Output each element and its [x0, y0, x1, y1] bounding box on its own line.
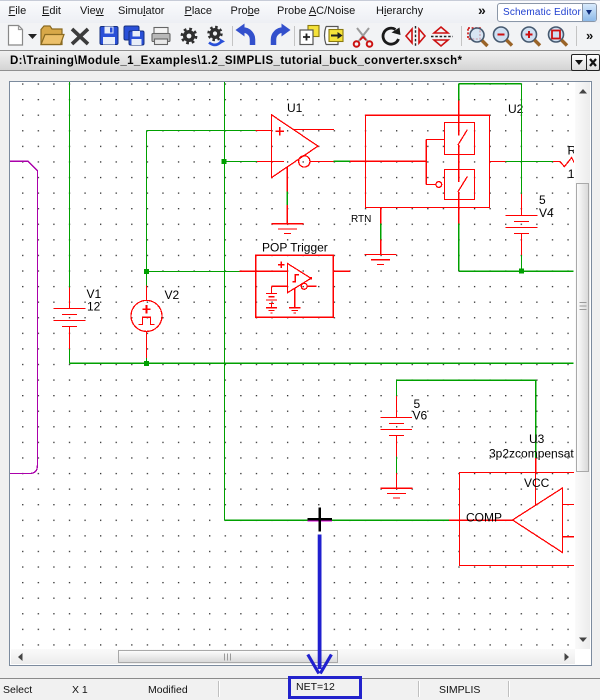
wire feedback vertical — [224, 82, 226, 520]
wire V1 top vertical — [69, 82, 71, 288]
svg-text:POP Trigger: POP Trigger — [262, 241, 328, 255]
cut scissors — [357, 28, 369, 42]
wire U2 control link — [333, 160, 350, 162]
separator — [232, 26, 234, 46]
POP trigger block U5 — [239, 255, 350, 317]
svg-text:V6: V6 — [413, 409, 428, 423]
svg-text:VCC: VCC — [524, 476, 550, 490]
wire U1 ground stub — [286, 192, 288, 205]
resistor R1 clipped — [553, 158, 576, 167]
svg-text:U3: U3 — [529, 432, 545, 446]
wire RTN stub — [380, 224, 382, 240]
copy — [308, 26, 319, 37]
wire bottom rail — [70, 349, 574, 363]
zoom area — [468, 28, 480, 39]
voltage source V6 — [381, 396, 413, 456]
wire U1 plus input feed — [147, 130, 256, 271]
node junction V4 rail — [519, 269, 524, 274]
compensator block U3 — [449, 458, 590, 565]
save floppy — [100, 27, 118, 45]
svg-text:U1: U1 — [287, 101, 303, 115]
cursor crosshair — [308, 518, 333, 520]
node junction V2 bottom — [144, 361, 149, 366]
svg-text:R1: R1 — [568, 144, 575, 158]
rotate — [383, 28, 398, 44]
pulse source V2 — [131, 286, 162, 359]
undo — [243, 30, 253, 45]
voltage source V1 — [54, 288, 86, 350]
ground RTN — [365, 208, 397, 265]
separator — [461, 26, 463, 46]
redo — [274, 30, 284, 45]
wire U1 minus input — [225, 160, 258, 162]
svg-text:COMP: COMP — [466, 511, 502, 525]
print — [154, 28, 168, 34]
highlight arrow — [308, 535, 332, 674]
node junction minus-input tee — [222, 159, 227, 164]
wire POP input feed — [147, 270, 240, 272]
svg-text:1: 1 — [568, 167, 574, 181]
wire U2 top loop — [459, 84, 522, 194]
simulator gears — [209, 27, 221, 39]
wire V6 ground stub — [396, 456, 398, 473]
wire V4 bottom stub — [521, 255, 523, 271]
zoom fit — [549, 27, 564, 42]
separator — [294, 26, 296, 46]
wire V2 branch — [146, 271, 148, 363]
svg-text:V2: V2 — [165, 288, 180, 302]
open folder — [41, 26, 62, 45]
delete X — [72, 29, 88, 44]
wire highlight magenta — [308, 520, 333, 522]
node junction V2 top — [144, 269, 149, 274]
separator — [576, 26, 578, 46]
op-amp U1 — [257, 115, 334, 178]
svg-text:V4: V4 — [539, 206, 554, 220]
new document — [9, 26, 23, 46]
grid dots — [10, 82, 574, 648]
svg-text:5: 5 — [539, 193, 546, 207]
wire U2 output — [505, 160, 553, 162]
ground below U1 — [272, 167, 304, 234]
mirror vertical — [415, 26, 417, 47]
switch block U2 — [350, 100, 505, 223]
save all floppies — [124, 26, 139, 40]
svg-text:3p2zcompensator: 3p2zcompensator — [489, 447, 574, 461]
zoom in — [522, 27, 537, 42]
wire VCC feed — [535, 380, 537, 458]
wire COMP feed — [225, 519, 449, 521]
paste into — [325, 27, 339, 45]
purple annotation box — [8, 161, 37, 473]
wire switch-node to ground rail — [459, 223, 574, 271]
options gear — [182, 29, 196, 43]
wire V6 riser — [397, 380, 536, 396]
svg-text:12: 12 — [87, 300, 101, 314]
zoom out — [494, 27, 509, 42]
wire U1 output link — [333, 160, 350, 162]
svg-text:»: » — [586, 28, 593, 43]
flip horizontal — [431, 36, 453, 38]
svg-text:RTN: RTN — [351, 214, 371, 225]
ground below V6 — [381, 473, 413, 498]
wire U1 plus pin stub — [255, 129, 271, 131]
voltage source V4 — [505, 194, 537, 255]
